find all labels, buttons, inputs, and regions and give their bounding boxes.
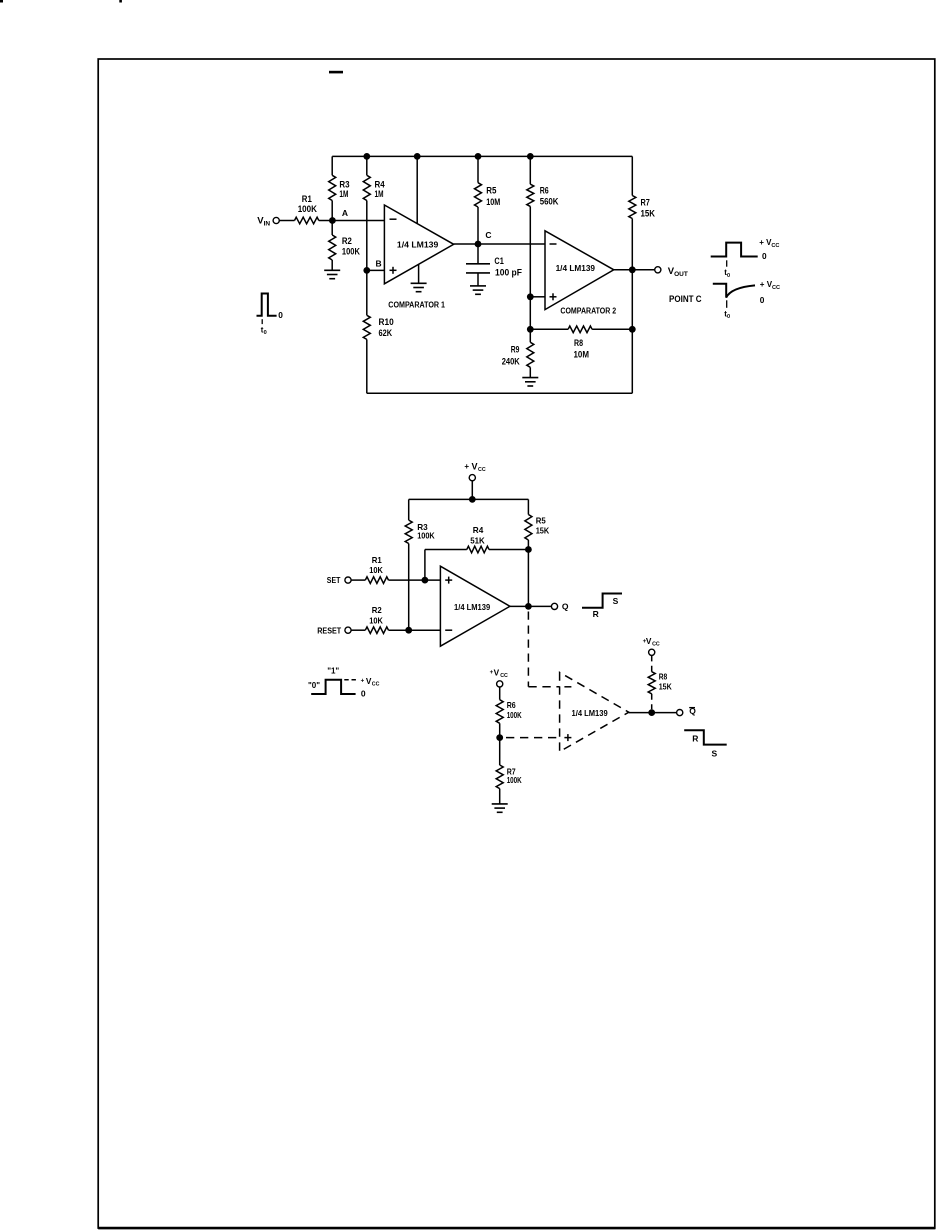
svg-text:R5: R5 — [486, 186, 496, 196]
svg-text:CC: CC — [372, 682, 380, 688]
svg-text:CC: CC — [500, 673, 508, 679]
svg-text:R10: R10 — [379, 317, 394, 327]
svg-text:CC: CC — [652, 642, 660, 648]
svg-text:"0": "0" — [308, 681, 320, 690]
svg-text:100K: 100K — [342, 246, 360, 256]
svg-text:+: + — [464, 462, 469, 471]
svg-text:R8: R8 — [574, 338, 583, 348]
svg-text:10M: 10M — [574, 350, 590, 360]
svg-text:S: S — [613, 596, 619, 606]
svg-text:R1: R1 — [372, 555, 382, 565]
svg-text:CC: CC — [771, 243, 779, 249]
svg-text:CC: CC — [478, 467, 486, 473]
svg-text:SET: SET — [327, 575, 341, 585]
svg-text:R6: R6 — [507, 700, 516, 710]
svg-text:R2: R2 — [372, 605, 382, 615]
svg-text:100K: 100K — [507, 775, 523, 785]
svg-text:1M: 1M — [339, 189, 348, 199]
svg-text:OUT: OUT — [674, 271, 688, 278]
svg-text:R1: R1 — [302, 194, 312, 204]
svg-text:100 pF: 100 pF — [495, 268, 522, 278]
svg-text:100K: 100K — [507, 710, 523, 720]
svg-text:R3: R3 — [339, 180, 349, 190]
svg-text:S: S — [712, 749, 718, 759]
svg-text:1M: 1M — [375, 189, 384, 199]
svg-text:0: 0 — [727, 273, 730, 279]
svg-text:B: B — [376, 258, 382, 268]
svg-text:POINT C: POINT C — [669, 294, 702, 305]
svg-text:51K: 51K — [470, 536, 485, 546]
svg-text:1/4 LM139: 1/4 LM139 — [572, 709, 609, 718]
svg-text:"1": "1" — [327, 667, 339, 676]
svg-text:+ V: + V — [759, 238, 772, 247]
svg-text:62K: 62K — [379, 328, 393, 338]
svg-text:R7: R7 — [641, 198, 650, 208]
svg-text:+ V: + V — [760, 280, 773, 289]
svg-text:V: V — [646, 636, 652, 646]
svg-text:Q: Q — [562, 601, 569, 611]
svg-text:R6: R6 — [540, 186, 549, 196]
svg-text:0: 0 — [361, 689, 366, 699]
svg-text:C: C — [485, 230, 491, 240]
svg-text:R: R — [593, 609, 599, 619]
svg-text:R4: R4 — [375, 180, 385, 190]
svg-text:IN: IN — [264, 220, 271, 227]
svg-text:R9: R9 — [511, 345, 520, 355]
svg-text:COMPARATOR 1: COMPARATOR 1 — [388, 300, 445, 309]
svg-text:100K: 100K — [417, 531, 435, 541]
svg-text:R8: R8 — [659, 672, 668, 682]
svg-text:0: 0 — [264, 330, 267, 336]
svg-text:RESET: RESET — [317, 625, 342, 635]
svg-text:V: V — [494, 668, 500, 678]
svg-text:100K: 100K — [298, 204, 318, 214]
svg-text:R2: R2 — [342, 236, 352, 246]
svg-text:15K: 15K — [536, 526, 550, 536]
svg-text:R4: R4 — [473, 525, 484, 535]
svg-text:0: 0 — [762, 251, 767, 261]
svg-text:+: + — [361, 677, 365, 684]
svg-text:560K: 560K — [540, 197, 559, 207]
svg-text:15K: 15K — [641, 209, 656, 219]
svg-text:10K: 10K — [369, 615, 383, 625]
svg-text:10M: 10M — [486, 197, 500, 207]
svg-text:1/4 LM139: 1/4 LM139 — [397, 241, 439, 250]
svg-text:0: 0 — [760, 295, 765, 305]
svg-text:R: R — [692, 733, 698, 743]
svg-text:C1: C1 — [494, 256, 503, 266]
svg-text:0: 0 — [278, 310, 283, 320]
svg-text:A: A — [342, 208, 348, 218]
svg-text:0: 0 — [727, 314, 730, 320]
svg-text:COMPARATOR 2: COMPARATOR 2 — [560, 307, 616, 316]
svg-text:240K: 240K — [502, 357, 520, 367]
svg-text:10K: 10K — [369, 565, 383, 575]
svg-text:V: V — [472, 461, 478, 471]
svg-text:1/4 LM139: 1/4 LM139 — [556, 264, 596, 273]
svg-text:R5: R5 — [536, 515, 546, 525]
svg-text:CC: CC — [772, 285, 780, 291]
svg-text:1/4 LM139: 1/4 LM139 — [454, 603, 491, 612]
svg-text:15K: 15K — [659, 682, 673, 692]
